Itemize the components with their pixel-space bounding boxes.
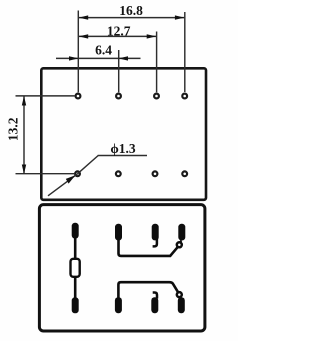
wire: loop to top-right pad [180, 240, 181, 243]
contact pad bottom-left [115, 297, 122, 313]
dimension line 13.2 [22, 96, 26, 174]
svg-text:16.8: 16.8 [119, 3, 143, 18]
svg-text:13.2: 13.2 [6, 117, 21, 141]
dimension line 6.4 (outside arrows) [56, 56, 141, 60]
hole A2 [116, 94, 121, 99]
svg-text:6.4: 6.4 [95, 42, 112, 57]
contact pad top-left [115, 224, 122, 241]
contact pad top-middle [152, 224, 159, 241]
extension line upper hole row (left) [16, 95, 75, 97]
leader line for hole diameter [48, 156, 147, 196]
extension line hole4 column [184, 12, 186, 92]
hole B2 [116, 171, 121, 176]
hole B1 (pointed by leader) [75, 171, 80, 176]
coil symbol [71, 259, 80, 277]
wire: bottom-left pad to bottom-right pad [118, 282, 178, 298]
coil wire (upper) [74, 237, 77, 260]
leader arrowhead [66, 175, 76, 183]
extension line lower hole row (left) [16, 173, 75, 175]
extension line hole1 column [77, 11, 79, 93]
coil pin pad (bottom) [72, 297, 79, 313]
dimension line 16.8 [79, 15, 185, 19]
hole B3 [153, 171, 158, 176]
extension line hole2 column [118, 50, 120, 92]
wire: top-left pad to top-right pad [119, 239, 178, 256]
hole A3 [154, 94, 159, 99]
svg-text:12.7: 12.7 [107, 24, 131, 39]
contact pad bottom-right [178, 297, 185, 313]
hole A1 [76, 94, 81, 99]
solder loop (top-right) [177, 242, 182, 247]
solder loop (bottom-right) [177, 292, 182, 297]
hole B4 [182, 171, 187, 176]
relay body outline (top view) [41, 68, 206, 200]
coil pin pad (top) [72, 223, 79, 239]
svg-text:ϕ1.3: ϕ1.3 [110, 141, 136, 156]
dimension line 12.7 [79, 34, 157, 38]
contact pad bottom-middle [151, 297, 158, 313]
hook on top-middle pad [153, 239, 157, 247]
hole A4 [182, 94, 187, 99]
hook on bottom-middle pad [153, 293, 157, 299]
relay bottom-view outline [39, 205, 205, 331]
coil wire (lower) [74, 276, 77, 299]
contact pad top-right [178, 224, 185, 241]
extension line hole3 column [156, 32, 158, 93]
